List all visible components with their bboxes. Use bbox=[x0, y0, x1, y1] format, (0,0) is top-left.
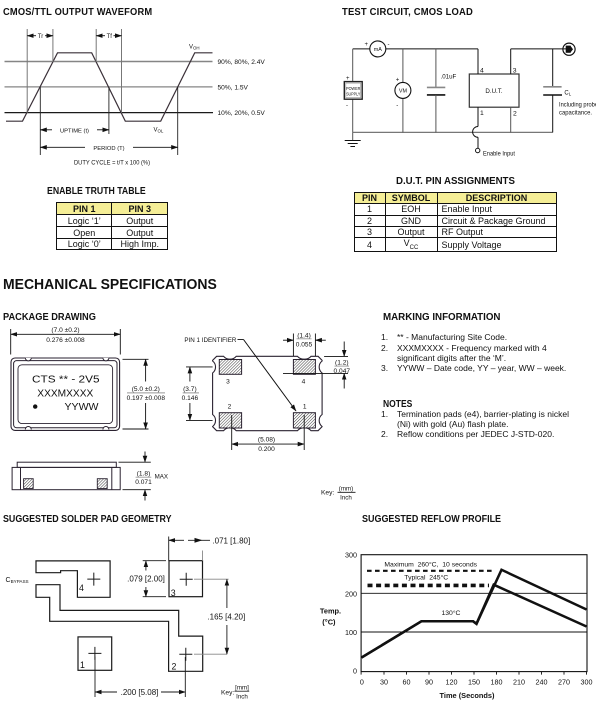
svg-text:Key:: Key: bbox=[221, 690, 234, 697]
svg-text:UPTIME (t): UPTIME (t) bbox=[60, 128, 89, 134]
svg-text:PIN 1 IDENTIFIER: PIN 1 IDENTIFIER bbox=[184, 337, 236, 344]
svg-text:100: 100 bbox=[345, 628, 357, 637]
svg-text:60: 60 bbox=[403, 678, 411, 687]
svg-text:-: - bbox=[346, 103, 348, 109]
svg-text:(1.8): (1.8) bbox=[137, 470, 151, 477]
svg-text:0.047: 0.047 bbox=[334, 368, 351, 375]
svg-text:0.055: 0.055 bbox=[296, 341, 313, 348]
svg-text:DUTY CYCLE = t/T x 100 (%): DUTY CYCLE = t/T x 100 (%) bbox=[74, 160, 150, 167]
svg-text:Inch: Inch bbox=[236, 694, 248, 701]
svg-text:XXXMXXXX: XXXMXXXX bbox=[37, 388, 93, 399]
svg-text:PERIOD (T): PERIOD (T) bbox=[93, 146, 124, 152]
svg-text:+: + bbox=[365, 42, 369, 48]
svg-text:D.U.T.: D.U.T. bbox=[485, 88, 502, 95]
svg-text:130°C: 130°C bbox=[442, 609, 461, 617]
svg-text:50%, 1.5V: 50%, 1.5V bbox=[218, 84, 249, 91]
svg-text:1: 1 bbox=[303, 404, 307, 411]
svg-text:1: 1 bbox=[80, 660, 85, 670]
svg-text:Enable Input: Enable Input bbox=[483, 151, 515, 158]
svg-text:Time (Seconds): Time (Seconds) bbox=[440, 691, 495, 700]
svg-text:[mm]: [mm] bbox=[235, 685, 249, 692]
svg-text:3: 3 bbox=[171, 588, 176, 598]
svg-text:4: 4 bbox=[480, 68, 484, 75]
svg-text:0: 0 bbox=[360, 678, 364, 687]
svg-text:YYWW: YYWW bbox=[65, 402, 100, 413]
svg-text:capacitance.: capacitance. bbox=[559, 110, 592, 117]
svg-text:2: 2 bbox=[228, 404, 232, 411]
svg-text:-: - bbox=[396, 103, 398, 109]
svg-text:4: 4 bbox=[302, 379, 306, 386]
svg-text:200: 200 bbox=[345, 589, 357, 598]
svg-text:90%, 80%, 2.4V: 90%, 80%, 2.4V bbox=[218, 59, 266, 66]
svg-text:Maximum 260°C, 10 seconds: Maximum 260°C, 10 seconds bbox=[384, 560, 477, 568]
svg-text:Including probe: Including probe bbox=[559, 102, 596, 109]
svg-text:.200 [5.08]: .200 [5.08] bbox=[121, 688, 159, 697]
svg-text:0.071: 0.071 bbox=[135, 479, 152, 486]
svg-text:+: + bbox=[396, 78, 400, 84]
svg-text:(5.08): (5.08) bbox=[258, 437, 275, 444]
svg-text:30: 30 bbox=[380, 678, 388, 687]
svg-text:3: 3 bbox=[226, 379, 230, 386]
svg-text:(7.0 ±0.2): (7.0 ±0.2) bbox=[51, 327, 79, 334]
svg-text:300: 300 bbox=[581, 678, 593, 687]
svg-text:(5.0 ±0.2): (5.0 ±0.2) bbox=[132, 386, 160, 393]
svg-text:0.197 ±0.008: 0.197 ±0.008 bbox=[127, 395, 166, 402]
svg-text:CL: CL bbox=[564, 91, 571, 97]
svg-text:SUPPLY: SUPPLY bbox=[346, 91, 360, 96]
svg-text:1: 1 bbox=[480, 110, 484, 117]
svg-text:Typical 245°C: Typical 245°C bbox=[404, 574, 448, 582]
svg-text:Tf: Tf bbox=[107, 34, 113, 40]
svg-text:+: + bbox=[346, 76, 350, 82]
svg-text:0.200: 0.200 bbox=[258, 446, 275, 453]
svg-text:10%, 20%, 0.5V: 10%, 20%, 0.5V bbox=[218, 110, 266, 117]
svg-text:VOL: VOL bbox=[154, 128, 164, 134]
svg-text:90: 90 bbox=[425, 678, 433, 687]
svg-text:(mm): (mm) bbox=[339, 486, 353, 493]
svg-text:VOH: VOH bbox=[189, 45, 200, 51]
svg-text:180: 180 bbox=[491, 678, 503, 687]
svg-text:POWER: POWER bbox=[346, 86, 360, 91]
svg-text:300: 300 bbox=[345, 551, 357, 560]
svg-text:Key:: Key: bbox=[321, 490, 334, 497]
svg-text:0.276 ±0.008: 0.276 ±0.008 bbox=[46, 337, 85, 344]
svg-text:(3.7): (3.7) bbox=[183, 386, 197, 393]
svg-text:Inch: Inch bbox=[340, 495, 352, 502]
svg-text:(1.2): (1.2) bbox=[335, 359, 349, 366]
svg-text:210: 210 bbox=[513, 678, 525, 687]
svg-text:0.146: 0.146 bbox=[182, 395, 199, 402]
svg-text:-: - bbox=[388, 42, 390, 48]
svg-text:240: 240 bbox=[536, 678, 548, 687]
svg-text:0: 0 bbox=[353, 666, 357, 675]
svg-text:4: 4 bbox=[79, 583, 84, 593]
svg-text:Temp.: Temp. bbox=[320, 606, 341, 615]
svg-text:MAX: MAX bbox=[155, 473, 168, 480]
svg-text:2: 2 bbox=[513, 111, 517, 118]
svg-text:.079 [2.00]: .079 [2.00] bbox=[127, 575, 165, 584]
svg-text:CTS ** - 2V5: CTS ** - 2V5 bbox=[32, 374, 100, 385]
svg-text:2: 2 bbox=[172, 662, 177, 672]
svg-text:(°C): (°C) bbox=[322, 618, 336, 627]
svg-text:3: 3 bbox=[513, 68, 517, 75]
svg-text:.01uF: .01uF bbox=[441, 74, 457, 81]
svg-text:270: 270 bbox=[558, 678, 570, 687]
svg-text:CBYPASS: CBYPASS bbox=[6, 577, 29, 584]
svg-text:.165 [4.20]: .165 [4.20] bbox=[207, 613, 245, 622]
svg-text:VM: VM bbox=[399, 89, 408, 95]
svg-text:Tr: Tr bbox=[38, 34, 43, 40]
svg-text:mA: mA bbox=[374, 47, 382, 53]
svg-text:150: 150 bbox=[468, 678, 480, 687]
svg-text:120: 120 bbox=[446, 678, 458, 687]
svg-text:.071 [1.80]: .071 [1.80] bbox=[212, 536, 250, 545]
